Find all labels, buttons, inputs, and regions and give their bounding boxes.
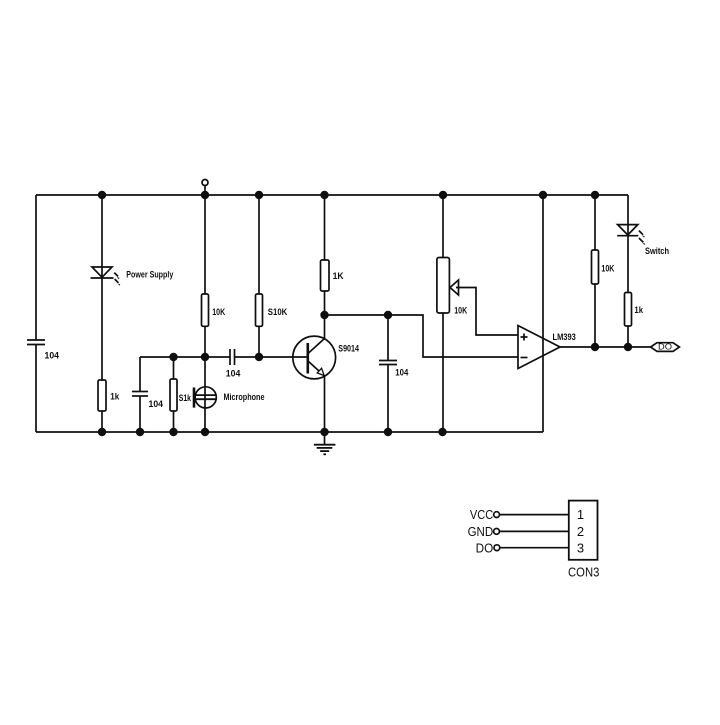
svg-text:CON3: CON3 [568,565,599,580]
svg-text:1k: 1k [110,392,120,402]
svg-text:VCC: VCC [470,507,493,522]
svg-text:S9014: S9014 [338,344,359,354]
svg-text:104: 104 [395,368,408,378]
svg-text:LM393: LM393 [553,332,576,342]
svg-text:Microphone: Microphone [224,392,265,402]
svg-text:104: 104 [45,351,60,361]
svg-text:DO: DO [658,342,672,352]
svg-text:10K: 10K [454,306,467,316]
svg-text:Power Supply: Power Supply [126,270,173,280]
svg-text:1: 1 [577,507,584,522]
svg-text:104: 104 [149,399,164,409]
svg-text:2: 2 [577,524,584,539]
svg-text:10K: 10K [601,264,614,274]
svg-text:S1k: S1k [179,393,192,403]
svg-text:104: 104 [226,369,241,379]
svg-text:Switch: Switch [645,246,669,256]
svg-text:DO: DO [476,540,494,555]
svg-text:10K: 10K [212,307,225,317]
svg-text:1k: 1k [634,305,643,315]
svg-text:GND: GND [468,524,494,539]
svg-text:3: 3 [577,540,584,555]
svg-text:1K: 1K [333,271,344,281]
svg-text:S10K: S10K [268,307,288,317]
